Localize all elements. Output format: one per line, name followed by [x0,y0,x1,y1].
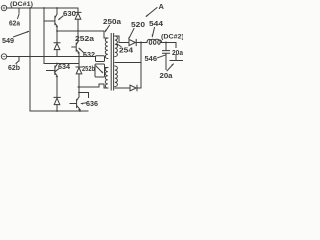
wire H4 to lower primary [78,84,108,88]
svg-text:549: 549 [2,36,14,45]
svg-text:630: 630 [63,11,76,18]
label arrow 630 [59,16,63,20]
wire stub node [79,93,89,98]
diode 520 [129,39,135,45]
label arrow 252b [96,66,103,73]
wire bottom rail [30,110,88,112]
svg-text:252a: 252a [75,36,94,43]
node H2 junction [56,63,58,65]
label arrow 634 [55,69,59,72]
node top rail junctions [29,7,31,9]
svg-text:62a: 62a [9,21,20,28]
wire H3 emitter rail [57,30,104,32]
wire secondary center tap [115,62,141,64]
transistor Q632 [72,41,79,64]
wire primary top lead [104,31,108,38]
wire return vertical [137,43,141,89]
capacitor lead tick 62a [18,8,20,13]
svg-text:20a: 20a [160,73,173,80]
label arrow 20a [167,64,173,71]
wire primary lower top lead [105,67,108,69]
diode D1 top [75,8,81,31]
svg-text:62b: 62b [8,65,20,72]
inductor 544 [147,39,162,44]
label arrow 520 [129,29,134,39]
transistor Q634 [47,64,58,98]
wire secondary top lead [115,36,129,43]
winding box upper [96,56,105,62]
svg-text:636: 636 [86,101,98,108]
wire output right [160,43,176,48]
label arrow 632 [79,48,84,52]
pointer arrow A [146,8,157,17]
diode D4 [54,97,60,111]
label arrow 549 [14,31,29,36]
label arrow 254 [117,44,121,47]
svg-text:252b: 252b [82,66,95,73]
terminal DC- input [1,54,6,59]
wire vertical left bus [29,8,31,111]
wire base drive vertical [43,8,45,64]
transistor Q636 [70,87,80,111]
svg-text:520: 520 [131,22,145,29]
transformer primary winding upper 252a [105,38,108,59]
svg-text:544: 544 [149,21,163,28]
diode D2 middle leg [54,31,60,57]
wire H2 base rail [44,63,79,65]
label arrow 62a [18,14,20,18]
svg-text:20a: 20a [172,50,183,57]
svg-text:632: 632 [83,52,95,59]
label arrow 636 [81,102,86,105]
transformer core [111,34,113,91]
transformer secondary winding lower [115,66,118,87]
winding box lower 252b [95,64,105,77]
capacitor 546 [163,43,170,70]
wire vertical to Q632 [77,31,79,41]
transistor Q630 [44,8,57,31]
svg-text:A: A [159,2,165,11]
svg-text:254: 254 [119,48,133,55]
wire top rail [7,7,78,9]
battery 20a [170,55,183,61]
capacitor lead tick 62b [18,57,20,62]
wire output [136,42,147,44]
transformer primary winding lower [105,68,108,89]
wire minus rail [7,56,96,58]
svg-text:(DC#2): (DC#2) [161,34,183,41]
label arrow 544 [152,28,154,37]
svg-text:634: 634 [58,64,70,71]
svg-text:250a: 250a [103,19,121,26]
diode D6 lower rectifier [130,85,136,91]
diode D3 [76,64,82,88]
label arrow 250a [105,25,109,31]
svg-text:546: 546 [145,56,158,63]
svg-text:(DC#1): (DC#1) [10,1,33,8]
terminal DC+ input [1,5,6,10]
label arrow 546 [158,55,166,58]
label arrow 62b [16,61,18,63]
transformer secondary winding upper [115,36,118,57]
wire secondary bottom lead [115,87,130,89]
